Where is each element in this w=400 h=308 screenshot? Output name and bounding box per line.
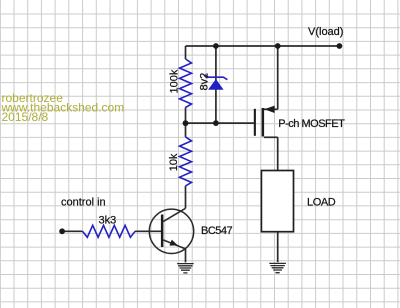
svg-text:2015/8/8: 2015/8/8 (2, 110, 49, 124)
svg-text:P-ch MOSFET: P-ch MOSFET (278, 118, 345, 130)
svg-text:control in: control in (61, 196, 106, 208)
svg-text:LOAD: LOAD (307, 197, 336, 209)
svg-text:BC547: BC547 (201, 225, 233, 237)
svg-text:V(load): V(load) (308, 26, 343, 38)
svg-text:8v2: 8v2 (199, 73, 211, 91)
svg-text:3k3: 3k3 (99, 214, 117, 226)
svg-text:100k: 100k (168, 69, 180, 93)
svg-text:10k: 10k (168, 153, 180, 171)
